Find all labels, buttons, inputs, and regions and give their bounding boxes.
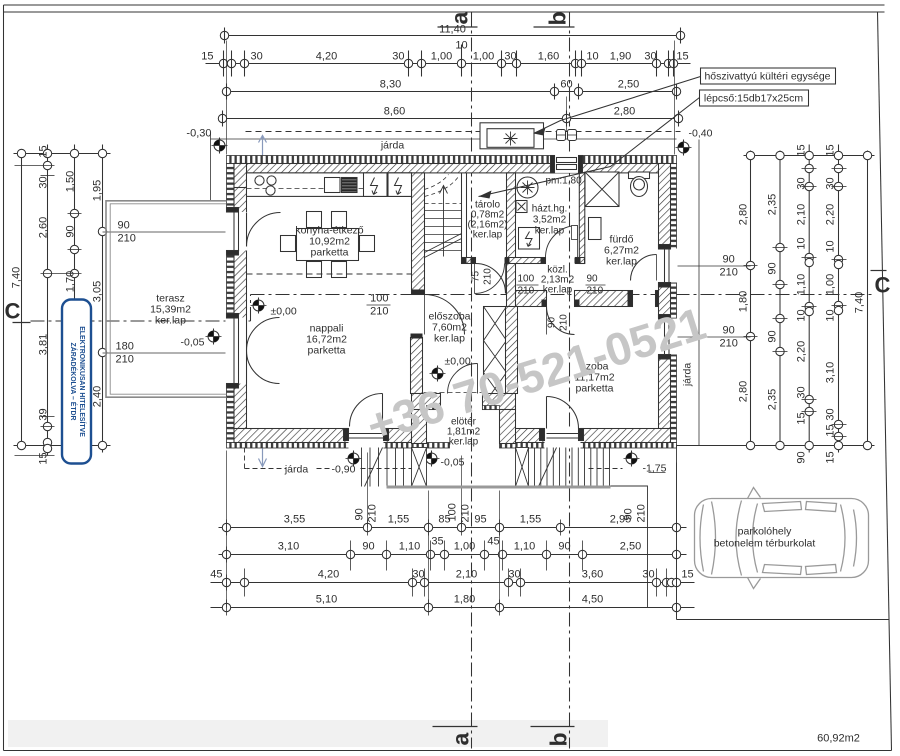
svg-text:15: 15 <box>825 451 837 463</box>
exterior wall bottom hatch left <box>234 429 412 443</box>
bottom row 3,10/90/1,10/35/1,00/45/1,10/90/2,50 <box>219 536 687 571</box>
svg-text:100: 100 <box>370 293 388 305</box>
svg-text:90: 90 <box>796 451 808 463</box>
svg-text:7,40: 7,40 <box>11 267 23 288</box>
dim row 11,40 <box>220 24 684 44</box>
svg-text:8,60: 8,60 <box>384 106 405 118</box>
svg-text:15: 15 <box>201 51 213 63</box>
bottom row 5,10/1,80/4,50 <box>211 594 695 616</box>
svg-text:b: b <box>546 732 572 746</box>
svg-text:2,80: 2,80 <box>614 106 635 118</box>
svg-text:parketta: parketta <box>308 345 346 357</box>
border right line (scan-skewed) <box>878 12 892 751</box>
svg-text:2,50: 2,50 <box>620 541 641 553</box>
interior wall konyha/stair <box>412 173 425 295</box>
door dim 75/210 tarolo (rotated) <box>471 268 494 285</box>
svg-text:3,55: 3,55 <box>284 514 305 526</box>
interior wall kozl/szoba + furdo south <box>516 291 659 307</box>
room label kozl <box>541 265 575 296</box>
right chain top connector <box>744 155 875 157</box>
bottom extension verticals <box>227 451 677 620</box>
svg-text:2,10: 2,10 <box>456 569 477 581</box>
bottom row 45/4,20/30/2,10/30/3,60/30/15 <box>210 569 694 597</box>
svg-text:1,95: 1,95 <box>92 180 104 201</box>
kitchen counter <box>247 173 412 197</box>
level -1,75 <box>624 451 667 475</box>
svg-text:2,10: 2,10 <box>796 204 808 225</box>
svg-text:30: 30 <box>825 408 837 420</box>
west wall opening 1 (kitchen door 90) <box>226 208 281 256</box>
konyha dashed room divider <box>247 273 412 275</box>
svg-text:4,20: 4,20 <box>316 51 337 63</box>
svg-text:3,10: 3,10 <box>825 362 837 383</box>
exterior wall top hatch <box>234 164 671 173</box>
svg-text:7,40: 7,40 <box>854 292 866 313</box>
svg-text:45: 45 <box>487 536 499 548</box>
room label tarolo <box>467 200 507 241</box>
west wall opening 2 (nappali door 180) <box>226 314 280 389</box>
east wall window szoba <box>658 315 678 360</box>
svg-text:1,00: 1,00 <box>825 274 837 295</box>
svg-text:ELEKTRONIKUSAN HITELESÍTVE: ELEKTRONIKUSAN HITELESÍTVE <box>78 326 87 437</box>
svg-text:ker.lap: ker.lap <box>449 437 479 448</box>
right chain labels <box>738 144 866 463</box>
svg-text:90: 90 <box>767 262 779 274</box>
FIXTURES <box>247 172 650 294</box>
level -0,90 jarda <box>346 451 362 467</box>
exterior wall bottom comb band right part <box>500 443 677 449</box>
border top line 1 <box>4 4 885 6</box>
terrace outline (gray double line) <box>106 201 227 397</box>
svg-text:házt.hg.: házt.hg. <box>532 204 568 215</box>
svg-text:1,50: 1,50 <box>65 171 77 192</box>
svg-text:3,05: 3,05 <box>92 281 104 302</box>
right chain bottom connector <box>677 445 875 447</box>
section marker b bottom <box>531 727 575 747</box>
exterior wall right comb band <box>671 164 677 443</box>
stamp ETDR <box>62 300 91 464</box>
callout box heat pump <box>534 68 836 136</box>
svg-text:210: 210 <box>460 504 472 522</box>
level pm0 kitchen <box>251 298 297 318</box>
svg-text:210: 210 <box>483 268 494 285</box>
interior wall stair/tarolo (thin) <box>462 173 467 258</box>
svg-text:3,81: 3,81 <box>38 334 50 355</box>
room label nappali <box>306 323 347 357</box>
extension line building right corner <box>674 41 676 155</box>
svg-text:90: 90 <box>118 220 130 232</box>
svg-text:100: 100 <box>447 503 459 521</box>
BOTTOMDIMS <box>210 451 694 620</box>
svg-text:30: 30 <box>392 51 404 63</box>
svg-text:-0,30: -0,30 <box>186 128 211 140</box>
svg-text:90: 90 <box>723 325 735 337</box>
svg-text:10: 10 <box>825 309 837 321</box>
svg-text:60: 60 <box>560 79 572 91</box>
left chain labels (rotated) <box>11 145 104 464</box>
svg-text:15: 15 <box>38 452 50 464</box>
dim row 15/30/4,20/30/1,00/1,00/30/1,60/10/1,90/30/15 <box>201 40 690 77</box>
door dim 90/210 szoba door (rotated) <box>547 314 570 331</box>
svg-text:ZÁRADÉKOLVA – ÉTDR: ZÁRADÉKOLVA – ÉTDR <box>69 343 78 421</box>
east wall window furdo <box>658 245 678 288</box>
ANNOT <box>150 68 835 476</box>
room label eloszoba <box>428 311 470 345</box>
interior wall nappali/eloszoba <box>411 338 423 394</box>
svg-text:járda: járda <box>682 363 694 388</box>
door kozl-furdo arc <box>631 255 657 281</box>
svg-text:8,30: 8,30 <box>380 79 401 91</box>
svg-text:35: 35 <box>431 536 443 548</box>
section line a-a vertical <box>471 13 473 749</box>
border bottom line <box>4 750 892 752</box>
room label furdo <box>604 234 639 268</box>
heat pump unit <box>480 123 544 149</box>
washing machine <box>517 177 538 198</box>
svg-text:2,35: 2,35 <box>767 194 779 215</box>
jarda dashed bottom <box>245 448 623 469</box>
section marker a top <box>438 12 478 28</box>
room label konyha <box>295 225 363 259</box>
kozl dims 100/210 <box>517 274 539 297</box>
outdoor stair right flight (to -1,75) <box>535 448 610 487</box>
furdo washbasin <box>572 226 578 240</box>
svg-text:-0,90: -0,90 <box>332 464 356 476</box>
svg-text:210: 210 <box>636 504 648 522</box>
car top view <box>695 488 869 589</box>
svg-text:15: 15 <box>796 144 808 156</box>
svg-text:75: 75 <box>471 271 482 283</box>
EXTRAS <box>62 201 890 745</box>
svg-text:11,40: 11,40 <box>439 24 466 36</box>
room label szoba <box>574 361 614 395</box>
top-left corner hatch block <box>234 164 247 188</box>
svg-text:ker.lap: ker.lap <box>155 315 186 327</box>
svg-text:210: 210 <box>367 504 379 522</box>
interior wall hazthg/furdo <box>579 173 585 264</box>
svg-text:3,52m2: 3,52m2 <box>533 215 567 226</box>
right door dim 90/210 upper <box>677 254 751 279</box>
svg-text:2,35: 2,35 <box>767 389 779 410</box>
terrace door dim 180/210 <box>103 341 227 366</box>
dim row 8,60/2,80 <box>218 106 682 127</box>
svg-text:±0,00: ±0,00 <box>271 306 297 318</box>
porch post right (X brace) <box>516 448 529 487</box>
svg-text:180: 180 <box>116 341 134 353</box>
kitchen appliance squares with bolt <box>364 173 388 197</box>
entry arrow bottom (blue) <box>259 449 267 467</box>
level -0,40 top right <box>676 128 713 156</box>
door kozl-szoba arc <box>547 307 575 335</box>
svg-text:2,80: 2,80 <box>738 381 750 402</box>
top wall rear door opening <box>551 155 583 173</box>
svg-text:15: 15 <box>796 412 808 424</box>
svg-text:±0,00: ±0,00 <box>445 356 471 368</box>
svg-text:210: 210 <box>518 286 535 297</box>
svg-text:210: 210 <box>720 267 738 279</box>
level pm0 eloszoba <box>430 356 471 382</box>
left chain cross ticks <box>15 166 82 456</box>
svg-text:10: 10 <box>825 240 837 252</box>
kitchen sink circles <box>255 176 264 185</box>
chairs <box>281 212 375 278</box>
section line c-c left segment <box>31 320 251 322</box>
svg-text:1,55: 1,55 <box>520 514 541 526</box>
dining table <box>297 229 359 261</box>
svg-text:3,60: 3,60 <box>582 569 603 581</box>
svg-text:2,60: 2,60 <box>38 217 50 238</box>
svg-text:-0,40: -0,40 <box>689 128 713 140</box>
svg-text:-0,05: -0,05 <box>181 337 205 349</box>
entrance niche left block <box>412 394 441 444</box>
svg-text:5,10: 5,10 <box>316 594 337 606</box>
furdo radiator <box>589 218 602 240</box>
interior door jamb blocks <box>411 258 659 339</box>
south wall szoba door opening <box>540 397 584 449</box>
interior wall eloszoba/szoba <box>506 307 518 394</box>
extension x=566 <box>566 97 568 132</box>
svg-text:30: 30 <box>508 569 520 581</box>
border left line <box>3 5 5 751</box>
right chain verticals <box>750 151 752 449</box>
left chain circles <box>17 149 106 452</box>
section marker b top <box>534 11 575 27</box>
right door dim 90/210 lower <box>677 325 751 350</box>
exterior wall top comb band <box>227 156 677 164</box>
svg-text:2,50: 2,50 <box>618 79 639 91</box>
stair dashed winders <box>425 175 462 204</box>
svg-text:30: 30 <box>251 51 263 63</box>
svg-text:b: b <box>545 11 571 25</box>
svg-text:ker.lap: ker.lap <box>473 230 503 241</box>
svg-text:10: 10 <box>586 51 598 63</box>
svg-text:1,55: 1,55 <box>388 514 409 526</box>
svg-text:10: 10 <box>796 309 808 321</box>
svg-text:ker.lap: ker.lap <box>606 256 637 268</box>
jarda left vertical <box>210 134 212 201</box>
shower tray <box>585 172 619 207</box>
svg-text:ker.lap: ker.lap <box>543 285 573 296</box>
stair arrow <box>440 186 448 257</box>
outdoor stair left flight <box>362 448 404 487</box>
svg-text:járda: járda <box>284 464 309 476</box>
callout box lepcso <box>479 90 809 199</box>
svg-text:45: 45 <box>210 569 222 581</box>
toilet <box>629 172 650 197</box>
svg-text:210: 210 <box>720 338 738 350</box>
svg-text:1,00: 1,00 <box>431 51 452 63</box>
svg-text:30: 30 <box>504 51 516 63</box>
svg-text:30: 30 <box>825 177 837 189</box>
room label terasz <box>150 293 191 327</box>
interior wall tarolo/hazthg <box>507 173 516 307</box>
terrace door dim 90/210 <box>103 220 227 245</box>
entrance door arc <box>424 364 482 394</box>
entrance niche right block <box>483 394 516 444</box>
svg-text:30: 30 <box>412 569 424 581</box>
RIGHTDIMS <box>677 140 875 464</box>
LEFTDIMS <box>11 145 227 465</box>
svg-text:90: 90 <box>547 317 558 329</box>
kitchen dark appliance <box>342 178 358 193</box>
svg-text:1,90: 1,90 <box>610 51 631 63</box>
svg-text:210: 210 <box>118 233 136 245</box>
svg-text:4,20: 4,20 <box>318 569 339 581</box>
svg-text:1,80: 1,80 <box>454 594 475 606</box>
left chain bottom connector <box>14 445 111 447</box>
svg-text:60,92m2: 60,92m2 <box>817 733 860 745</box>
svg-text:90: 90 <box>767 330 779 342</box>
svg-text:90: 90 <box>65 225 77 237</box>
door dim 100/210 konyha <box>367 293 391 318</box>
svg-text:210: 210 <box>587 286 604 297</box>
svg-text:járda: járda <box>380 140 405 152</box>
svg-text:30: 30 <box>38 176 50 188</box>
svg-text:90: 90 <box>623 508 635 520</box>
svg-text:15: 15 <box>38 145 50 157</box>
svg-text:90: 90 <box>723 254 735 266</box>
jarda right edge line <box>698 140 700 446</box>
exterior wall left hatch <box>234 164 247 429</box>
scan shading band <box>8 720 608 747</box>
level -0,05 entry <box>424 451 465 469</box>
section line b-b vertical <box>569 13 571 749</box>
section marker c left <box>5 299 31 324</box>
right chain cross ticks <box>744 169 847 437</box>
svg-text:30: 30 <box>796 177 808 189</box>
svg-text:1,00: 1,00 <box>473 51 494 63</box>
level marker at jarda top <box>212 138 228 154</box>
svg-text:100: 100 <box>518 274 535 285</box>
svg-text:betonelem térburkolat: betonelem térburkolat <box>714 538 816 550</box>
interior wall tarolo+hazthg bottom <box>462 226 585 294</box>
svg-text:2,40: 2,40 <box>92 386 104 407</box>
south wall nappali door opening <box>344 394 389 449</box>
level -0,05 terasz <box>181 329 222 349</box>
border top line 2 <box>4 11 885 13</box>
exterior wall left comb band <box>227 164 235 443</box>
svg-text:parkolóhely: parkolóhely <box>738 526 792 538</box>
svg-text:95: 95 <box>474 514 486 526</box>
svg-text:90: 90 <box>558 541 570 553</box>
hazthg small sym <box>516 201 527 213</box>
svg-text:2,80: 2,80 <box>738 204 750 225</box>
hazthg boiler <box>519 228 540 250</box>
svg-text:39: 39 <box>38 408 50 420</box>
exterior wall bottom hatch right <box>507 429 671 443</box>
exterior wall bottom comb band left part <box>227 443 450 449</box>
right chain circles <box>746 151 871 449</box>
svg-text:15: 15 <box>676 51 688 63</box>
svg-text:-0,05: -0,05 <box>441 457 465 469</box>
svg-text:15: 15 <box>681 569 693 581</box>
svg-text:1,70: 1,70 <box>65 271 77 292</box>
room label hazthg <box>532 204 568 237</box>
svg-text:ker.lap: ker.lap <box>434 333 465 345</box>
stoop boundary right <box>611 486 648 608</box>
svg-text:10: 10 <box>796 237 808 249</box>
svg-text:hőszivattyú kültéri egysége: hőszivattyú kültéri egysége <box>704 71 830 83</box>
stoop bottom edge (gray) <box>387 486 611 489</box>
svg-text:210: 210 <box>370 306 388 318</box>
tarolo door arc <box>475 264 505 294</box>
jarda top edge dashed <box>246 131 681 133</box>
svg-text:30: 30 <box>642 569 654 581</box>
extension line building left corner <box>226 41 228 155</box>
section marker a bottom <box>433 727 478 746</box>
entry arrow top (blue) <box>259 136 267 156</box>
dim row 8,30/60/2,50 <box>222 79 680 100</box>
kitchen stove <box>325 178 341 193</box>
TOPDIMS <box>186 24 690 201</box>
svg-text:90: 90 <box>354 508 366 520</box>
svg-text:30: 30 <box>644 51 656 63</box>
jarda top solid edge <box>211 138 677 140</box>
svg-text:1,60: 1,60 <box>538 51 559 63</box>
stair rails diagonal <box>425 234 462 258</box>
svg-text:C: C <box>875 273 891 298</box>
svg-text:30: 30 <box>796 386 808 398</box>
exterior wall right hatch <box>659 164 671 429</box>
svg-text:15: 15 <box>825 144 837 156</box>
svg-text:90: 90 <box>587 274 599 285</box>
chimney shaft with X bracing <box>484 307 507 405</box>
svg-text:1,00: 1,00 <box>454 541 475 553</box>
kozl dims 90/210 <box>586 274 606 297</box>
svg-text:C: C <box>5 299 21 324</box>
svg-text:210: 210 <box>116 354 134 366</box>
left chain verticals <box>21 151 23 449</box>
svg-text:2,20: 2,20 <box>796 341 808 362</box>
svg-text:2,20: 2,20 <box>825 204 837 225</box>
porch post left (X brace) <box>412 448 427 487</box>
stair treads <box>425 211 462 251</box>
door nappali-eloszoba arc <box>425 295 465 335</box>
section line c-c right segment <box>251 294 873 296</box>
section line c-c jog <box>250 295 252 322</box>
left chain top connector <box>14 153 111 155</box>
svg-text:15: 15 <box>825 424 837 436</box>
svg-text:210: 210 <box>559 314 570 331</box>
svg-text:3,10: 3,10 <box>278 541 299 553</box>
svg-text:4,50: 4,50 <box>582 594 603 606</box>
WALLS <box>226 155 678 449</box>
svg-text:1,80: 1,80 <box>738 291 750 312</box>
bottom row 3,55/1,55/85/95/1,55/2,95 <box>219 514 687 536</box>
room label eloter <box>447 417 481 448</box>
svg-text:a: a <box>448 733 474 746</box>
svg-text:ker.lap: ker.lap <box>535 226 565 237</box>
drain symbols <box>557 130 577 141</box>
svg-text:90: 90 <box>362 541 374 553</box>
svg-text:1,10: 1,10 <box>514 541 535 553</box>
svg-text:10: 10 <box>455 40 467 52</box>
section marker c right <box>871 271 891 298</box>
svg-text:1,10: 1,10 <box>399 541 420 553</box>
parking boundary <box>677 445 890 620</box>
svg-text:lépcső:15db17x25cm: lépcső:15db17x25cm <box>704 93 803 105</box>
svg-text:1,10: 1,10 <box>796 274 808 295</box>
svg-text:parketta: parketta <box>311 247 349 259</box>
